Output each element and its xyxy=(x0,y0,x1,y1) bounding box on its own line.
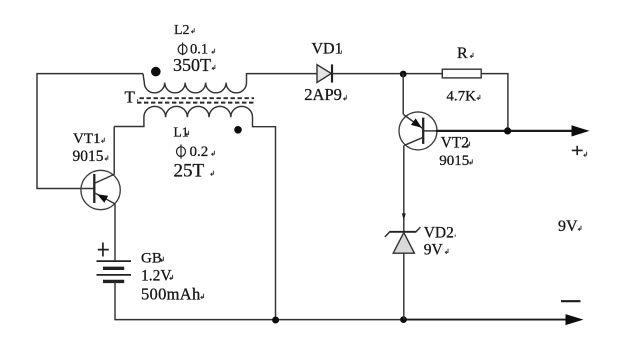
svg-text:9015: 9015 xyxy=(439,153,469,169)
minus sign (output -) xyxy=(561,300,581,302)
inductor L2 (primary winding, scallops) xyxy=(143,74,317,93)
svg-text:350T: 350T xyxy=(173,55,211,75)
label phi 0.2 xyxy=(177,144,209,160)
battery GB xyxy=(97,243,132,282)
node junction dot (L1 return on rail) xyxy=(272,317,279,324)
node junction dot (VD1 cathode / VT2 emitter) xyxy=(400,71,407,78)
node: phase dot of L2 xyxy=(151,67,161,77)
wire: battery minus down to bottom rail xyxy=(114,281,116,319)
transformer T core (dashed lines) xyxy=(140,97,255,99)
svg-text:9V: 9V xyxy=(558,218,578,235)
wire: VT1 collector lead up to L1 xyxy=(113,127,115,175)
svg-text:VT1: VT1 xyxy=(73,131,101,147)
svg-text:9V: 9V xyxy=(424,241,444,258)
transistor VT1 (PNP 9015) xyxy=(81,170,120,209)
node junction dot (R to output line) xyxy=(504,127,511,134)
svg-text:25T: 25T xyxy=(174,161,205,182)
resistor R 4.7K xyxy=(442,69,508,131)
plus sign (output +) xyxy=(572,146,583,155)
inductor L1 (secondary winding, bumps) + wire to bottom rail xyxy=(114,106,275,319)
svg-text:L1: L1 xyxy=(174,124,189,139)
svg-text:0.2: 0.2 xyxy=(190,144,209,160)
svg-text:L2: L2 xyxy=(174,23,190,38)
svg-text:9015: 9015 xyxy=(73,148,104,165)
svg-text:T: T xyxy=(125,88,136,107)
node junction dot (VD2 branch on rail) xyxy=(400,316,407,323)
transistor VT2 (PNP 9015) xyxy=(399,112,437,150)
wire: VT2 collector down to zener xyxy=(403,145,405,231)
zener diode VD2 (9V) xyxy=(385,227,421,253)
node: phase dot of L1 xyxy=(234,126,242,134)
label phi 0.1 xyxy=(178,42,208,58)
wire: zener anode down to bottom rail xyxy=(403,253,405,319)
wire: bottom rail (left thin part) xyxy=(114,319,403,321)
svg-text:VD1: VD1 xyxy=(312,41,343,58)
wire: VT2 base to output + arrow xyxy=(436,130,572,132)
svg-text:VD2: VD2 xyxy=(424,225,454,242)
svg-text:1.2V: 1.2V xyxy=(141,268,172,285)
small arrow mark on wire xyxy=(402,213,406,220)
wire: VT1 emitter lead down to battery xyxy=(114,204,116,260)
wire: junction down to VT2 emitter xyxy=(402,74,404,115)
wire: top-left loop and VT1 base line xyxy=(37,74,143,189)
svg-text:4.7K: 4.7K xyxy=(446,88,476,104)
svg-text:VT2: VT2 xyxy=(441,134,469,151)
return marks after labels xyxy=(102,28,587,299)
wire: bottom rail (right part) with output arrow xyxy=(404,319,568,321)
svg-text:GB: GB xyxy=(141,251,162,267)
svg-text:500mAh: 500mAh xyxy=(141,285,201,304)
diode VD1 (2AP9) xyxy=(317,64,442,82)
svg-text:R: R xyxy=(457,45,468,62)
svg-text:2AP9: 2AP9 xyxy=(304,85,342,104)
